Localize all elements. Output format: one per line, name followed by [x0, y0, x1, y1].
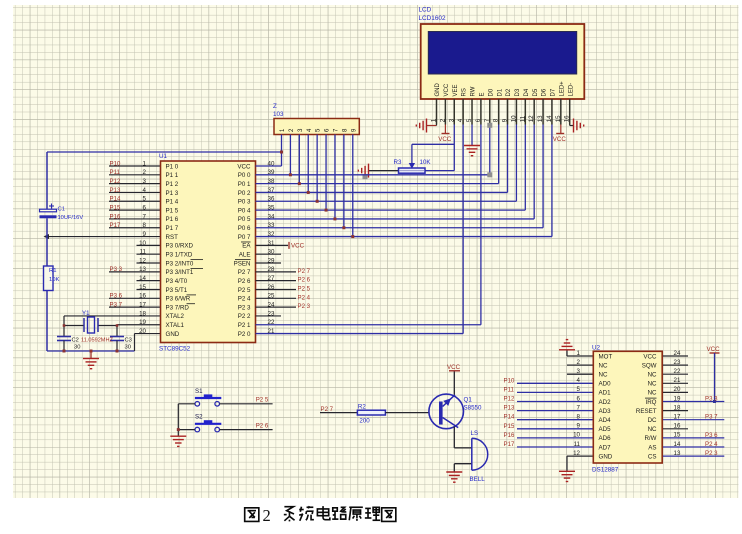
svg-text:P3 7: P3 7: [110, 302, 123, 309]
svg-text:4: 4: [143, 187, 147, 194]
svg-text:16: 16: [564, 115, 571, 122]
svg-text:D4: D4: [524, 88, 530, 96]
svg-text:R2: R2: [358, 403, 366, 410]
svg-text:XTAL1: XTAL1: [166, 322, 185, 329]
svg-text:P3 2/INT0: P3 2/INT0: [166, 260, 194, 267]
svg-text:IRQ: IRQ: [645, 399, 656, 406]
svg-text:AD5: AD5: [599, 426, 612, 433]
svg-text:P3 7/RD: P3 7/RD: [166, 304, 190, 311]
svg-text:AD4: AD4: [599, 417, 612, 424]
svg-text:STC89C52: STC89C52: [159, 346, 191, 353]
svg-text:P2 5: P2 5: [298, 285, 311, 292]
svg-text:VCC: VCC: [291, 242, 305, 249]
svg-text:VCC: VCC: [438, 136, 452, 143]
svg-text:LED+: LED+: [559, 81, 565, 97]
svg-text:P14: P14: [110, 196, 121, 203]
svg-text:RW: RW: [471, 86, 477, 96]
svg-text:6: 6: [577, 395, 581, 402]
svg-text:P1 3: P1 3: [166, 190, 179, 197]
svg-text:VCC: VCC: [643, 353, 657, 360]
svg-text:AD2: AD2: [599, 399, 612, 406]
svg-text:D5: D5: [533, 88, 539, 96]
svg-text:5: 5: [577, 386, 581, 393]
svg-text:LCD: LCD: [419, 7, 432, 14]
svg-text:P17: P17: [110, 222, 121, 229]
svg-text:VEE: VEE: [453, 84, 459, 96]
svg-text:3: 3: [143, 178, 147, 185]
svg-text:12: 12: [528, 115, 535, 122]
svg-text:AD7: AD7: [599, 444, 612, 451]
svg-text:E: E: [480, 92, 486, 96]
svg-text:P2 7: P2 7: [298, 268, 311, 275]
svg-text:2: 2: [577, 359, 581, 366]
svg-text:P3 6: P3 6: [705, 432, 718, 439]
svg-text:17: 17: [139, 302, 146, 309]
svg-text:RESET: RESET: [636, 408, 657, 415]
svg-text:P3 5/T1: P3 5/T1: [166, 287, 188, 294]
svg-text:10UF/16V: 10UF/16V: [58, 215, 84, 221]
svg-text:P2 7: P2 7: [321, 406, 334, 413]
svg-text:P1 7: P1 7: [166, 225, 179, 232]
svg-text:S1: S1: [195, 388, 203, 395]
svg-text:NC: NC: [648, 372, 657, 379]
svg-text:CS: CS: [648, 453, 657, 460]
svg-text:103: 103: [273, 111, 284, 118]
svg-text:VCC: VCC: [444, 83, 450, 96]
svg-text:NC: NC: [599, 372, 608, 379]
svg-text:15: 15: [139, 284, 146, 291]
svg-text:14: 14: [674, 441, 681, 448]
svg-text:VCC: VCC: [447, 364, 461, 371]
svg-text:1: 1: [143, 160, 147, 167]
svg-text:3: 3: [577, 368, 581, 375]
svg-text:3: 3: [448, 118, 455, 122]
svg-text:200: 200: [359, 418, 370, 425]
svg-text:BELL: BELL: [470, 476, 486, 483]
svg-text:R1: R1: [49, 268, 57, 274]
svg-text:LS: LS: [471, 430, 479, 437]
svg-text:P0 1: P0 1: [238, 181, 251, 188]
svg-text:R/W: R/W: [644, 435, 656, 442]
svg-text:1: 1: [577, 350, 581, 357]
svg-text:P1 0: P1 0: [166, 163, 179, 170]
svg-text:P3 3: P3 3: [110, 266, 123, 273]
svg-text:P17: P17: [504, 441, 515, 448]
svg-text:24: 24: [674, 350, 681, 357]
svg-text:P2 4: P2 4: [298, 294, 311, 301]
svg-text:AD6: AD6: [599, 435, 612, 442]
svg-text:C3: C3: [125, 337, 132, 343]
svg-text:P2 2: P2 2: [238, 313, 251, 320]
svg-text:P2 7: P2 7: [238, 269, 251, 276]
svg-text:RST: RST: [166, 234, 179, 241]
svg-text:P3 3: P3 3: [705, 396, 718, 403]
svg-text:RS: RS: [462, 88, 468, 96]
svg-text:XTAL2: XTAL2: [166, 313, 185, 320]
svg-text:P0 0: P0 0: [238, 172, 251, 179]
svg-text:P2 6: P2 6: [238, 278, 251, 285]
svg-text:AD1: AD1: [599, 390, 612, 397]
svg-text:14: 14: [546, 115, 553, 122]
svg-text:P1 4: P1 4: [166, 199, 179, 206]
svg-text:D0: D0: [488, 88, 494, 96]
svg-text:P2 5: P2 5: [256, 397, 269, 404]
svg-text:18: 18: [139, 310, 146, 317]
svg-text:21: 21: [674, 377, 681, 384]
svg-text:P16: P16: [110, 213, 121, 220]
svg-text:P0 7: P0 7: [238, 234, 251, 241]
svg-text:D1: D1: [497, 88, 503, 96]
svg-text:P16: P16: [504, 432, 515, 439]
svg-text:13: 13: [537, 115, 544, 122]
svg-text:DC: DC: [648, 417, 657, 424]
svg-text:16: 16: [139, 293, 146, 300]
svg-text:P11: P11: [110, 169, 121, 176]
svg-text:NC: NC: [648, 426, 657, 433]
svg-text:2: 2: [263, 506, 271, 525]
svg-text:6: 6: [143, 205, 147, 212]
svg-text:7: 7: [484, 118, 491, 122]
svg-text:20: 20: [139, 328, 146, 335]
svg-text:10: 10: [510, 115, 517, 122]
svg-text:20: 20: [674, 386, 681, 393]
svg-text:12: 12: [139, 257, 146, 264]
svg-text:30: 30: [125, 345, 131, 351]
svg-text:4: 4: [457, 118, 464, 122]
svg-text:10K: 10K: [49, 277, 60, 283]
svg-text:P2 3: P2 3: [238, 304, 251, 311]
svg-text:1: 1: [431, 118, 438, 122]
svg-text:P12: P12: [504, 396, 515, 403]
svg-text:12: 12: [573, 450, 580, 457]
svg-text:13: 13: [139, 266, 146, 273]
svg-text:P0 2: P0 2: [238, 190, 251, 197]
svg-text:P10: P10: [504, 377, 515, 384]
svg-text:GND: GND: [435, 83, 441, 97]
svg-text:6: 6: [475, 118, 482, 122]
svg-text:P2 4: P2 4: [238, 296, 251, 303]
svg-text:8: 8: [143, 222, 147, 229]
svg-text:7: 7: [577, 404, 581, 411]
svg-text:P3 4/T0: P3 4/T0: [166, 278, 188, 285]
svg-text:19: 19: [674, 395, 681, 402]
svg-text:10: 10: [139, 240, 146, 247]
svg-text:19: 19: [139, 319, 146, 326]
svg-text:D2: D2: [506, 88, 512, 96]
svg-text:PSEN: PSEN: [234, 260, 251, 267]
svg-text:P15: P15: [504, 423, 515, 430]
svg-text:P0 6: P0 6: [238, 225, 251, 232]
svg-text:P13: P13: [504, 405, 515, 412]
svg-text:D7: D7: [551, 88, 557, 96]
svg-text:VCC: VCC: [553, 136, 567, 143]
svg-text:P3 1/TXD: P3 1/TXD: [166, 252, 193, 259]
svg-text:13: 13: [674, 450, 681, 457]
svg-text:8: 8: [577, 414, 581, 421]
svg-text:SQW: SQW: [642, 362, 657, 369]
svg-text:P3 3/INT1: P3 3/INT1: [166, 269, 194, 276]
svg-text:C2: C2: [72, 337, 79, 343]
svg-text:S8550: S8550: [464, 404, 482, 411]
svg-text:U2: U2: [592, 344, 601, 351]
svg-text:NC: NC: [648, 390, 657, 397]
svg-text:NC: NC: [648, 381, 657, 388]
svg-text:DS12887: DS12887: [592, 466, 619, 473]
svg-text:P1 6: P1 6: [166, 216, 179, 223]
svg-text:15: 15: [674, 432, 681, 439]
svg-text:P2 1: P2 1: [238, 322, 251, 329]
svg-text:23: 23: [674, 359, 681, 366]
svg-text:11: 11: [519, 115, 526, 122]
svg-text:GND: GND: [599, 453, 613, 460]
svg-text:AD3: AD3: [599, 408, 612, 415]
svg-text:14: 14: [139, 275, 146, 282]
svg-text:LCD1602: LCD1602: [419, 15, 446, 22]
svg-text:9: 9: [577, 423, 581, 430]
svg-text:GND: GND: [166, 331, 180, 338]
svg-text:5: 5: [143, 196, 147, 203]
svg-text:10K: 10K: [420, 159, 432, 166]
svg-text:15: 15: [555, 115, 562, 122]
svg-text:P15: P15: [110, 205, 121, 212]
svg-text:10: 10: [573, 432, 580, 439]
svg-text:P2 0: P2 0: [238, 331, 251, 338]
svg-text:5: 5: [466, 118, 473, 122]
svg-text:P0 4: P0 4: [238, 207, 251, 214]
svg-text:AS: AS: [648, 444, 656, 451]
svg-text:P3 6/WR: P3 6/WR: [166, 296, 191, 303]
svg-text:11: 11: [574, 441, 581, 448]
svg-text:P13: P13: [110, 187, 121, 194]
svg-text:P10: P10: [110, 160, 121, 167]
svg-text:ALE: ALE: [239, 252, 251, 259]
svg-text:P2 4: P2 4: [705, 441, 718, 448]
svg-text:Q1: Q1: [464, 397, 473, 404]
svg-text:P1 5: P1 5: [166, 207, 179, 214]
svg-text:P2 5: P2 5: [238, 287, 251, 294]
svg-text:P2 3: P2 3: [298, 303, 311, 310]
svg-text:P0 3: P0 3: [238, 199, 251, 206]
svg-text:VCC: VCC: [237, 163, 251, 170]
svg-text:2: 2: [439, 118, 446, 122]
svg-text:7: 7: [143, 213, 147, 220]
svg-text:AD0: AD0: [599, 381, 612, 388]
svg-text:LED-: LED-: [568, 83, 574, 97]
svg-text:R3: R3: [394, 159, 402, 166]
svg-text:P2 6: P2 6: [256, 422, 269, 429]
svg-text:9: 9: [502, 118, 509, 122]
svg-text:30: 30: [74, 345, 80, 351]
svg-text:9: 9: [143, 231, 147, 238]
svg-text:4: 4: [577, 377, 581, 384]
svg-text:S2: S2: [195, 414, 203, 421]
svg-text:U1: U1: [159, 153, 168, 160]
svg-text:P2 6: P2 6: [298, 277, 311, 284]
svg-text:D3: D3: [515, 88, 521, 96]
svg-text:22: 22: [674, 368, 681, 375]
svg-text:P0 5: P0 5: [238, 216, 251, 223]
svg-text:P3 7: P3 7: [705, 414, 718, 421]
svg-text:P12: P12: [110, 178, 121, 185]
svg-text:D6: D6: [542, 88, 548, 96]
svg-text:17: 17: [674, 414, 681, 421]
svg-text:16: 16: [674, 423, 681, 430]
svg-text:2: 2: [143, 169, 147, 176]
svg-text:P11: P11: [504, 386, 515, 393]
svg-text:18: 18: [674, 404, 681, 411]
svg-text:P14: P14: [504, 414, 515, 421]
svg-text:NC: NC: [599, 362, 608, 369]
svg-text:P3 0/RXD: P3 0/RXD: [166, 243, 194, 250]
svg-text:MOT: MOT: [599, 353, 613, 360]
svg-text:11.0592MHZ: 11.0592MHZ: [81, 337, 114, 343]
svg-text:11: 11: [140, 249, 147, 256]
svg-text:P2 3: P2 3: [705, 450, 718, 457]
svg-text:Y1: Y1: [82, 310, 90, 317]
svg-text:Z: Z: [273, 103, 277, 110]
svg-text:VCC: VCC: [707, 346, 721, 353]
svg-text:8: 8: [493, 118, 500, 122]
svg-text:P3 6: P3 6: [110, 293, 123, 300]
svg-text:P1 1: P1 1: [166, 172, 179, 179]
svg-text:P1 2: P1 2: [166, 181, 179, 188]
svg-text:C1: C1: [58, 207, 66, 213]
svg-text:EA: EA: [242, 243, 251, 250]
